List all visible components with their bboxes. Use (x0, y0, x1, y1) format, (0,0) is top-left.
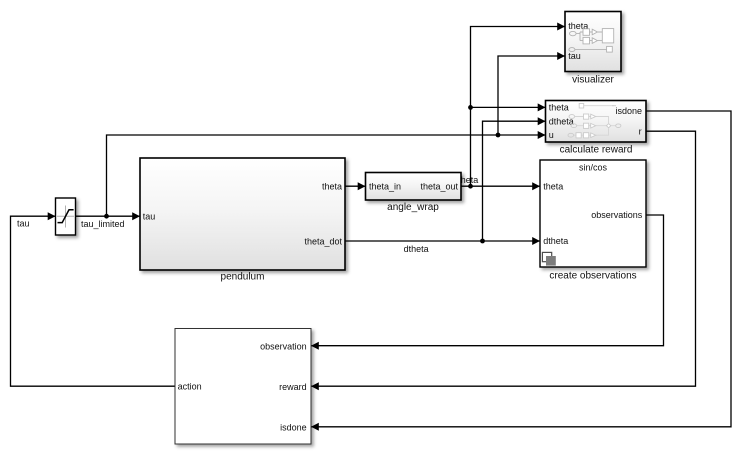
arrowhead into pendulum tau (132, 212, 140, 220)
angle_wrap block (366, 173, 462, 201)
calculate reward thumbnail row3 (571, 124, 577, 128)
junction on theta wire (468, 184, 473, 189)
svg-text:tau: tau (17, 219, 30, 229)
wire theta vertical branch to visualizer theta (471, 27, 566, 187)
visualizer thumbnail big square (602, 29, 613, 43)
svg-text:isdone: isdone (615, 106, 642, 116)
visualizer thumbnail gain 2 (592, 38, 597, 44)
calculate reward thumbnail row1 (579, 104, 584, 109)
svg-text:sin/cos: sin/cos (579, 163, 608, 173)
svg-text:theta: theta (549, 103, 569, 113)
create observations variant badge filled square (546, 256, 556, 266)
arrowhead into calculate reward theta (538, 103, 546, 111)
svg-text:pendulum: pendulum (221, 272, 265, 283)
wire observations: create observations to agent observation (311, 215, 664, 346)
svg-text:theta_out: theta_out (420, 181, 458, 191)
wire isdone: calculate reward isdone to agent isdone (311, 111, 731, 427)
svg-text:angle_wrap: angle_wrap (387, 202, 439, 213)
svg-text:dtheta: dtheta (543, 236, 568, 246)
arrowhead into angle_wrap theta_in (358, 182, 366, 190)
visualizer thumbnail gain 1 (592, 29, 597, 35)
svg-text:theta_dot: theta_dot (304, 236, 342, 246)
calculate reward thumbnail row4 (568, 133, 574, 137)
visualizer thumbnail row2 ellipse (569, 48, 575, 52)
arrowhead into agent observation (311, 342, 319, 350)
arrowhead into visualizer tau (557, 52, 565, 60)
create observations block (540, 160, 646, 267)
svg-text:reward: reward (279, 382, 307, 392)
visualizer thumbnail wires (576, 32, 602, 41)
svg-text:tau: tau (143, 212, 156, 222)
visualizer thumbnail row1 source ellipse (570, 31, 577, 35)
svg-text:tau_limited: tau_limited (81, 219, 125, 229)
visualizer thumbnail row2 wire (575, 49, 607, 51)
svg-text:observations: observations (591, 210, 643, 220)
visualizer thumbnail square 2 (583, 37, 590, 44)
wire action: agent action to saturation input (11, 216, 175, 386)
arrowhead into calculate reward dtheta (538, 117, 546, 125)
svg-text:dtheta: dtheta (404, 244, 429, 254)
svg-text:isdone: isdone (280, 422, 307, 432)
visualizer thumbnail row2 square (607, 46, 613, 52)
pendulum block (140, 158, 345, 270)
calculate reward thumbnail row2 (569, 115, 575, 119)
svg-text:theta: theta (322, 181, 342, 191)
arrowhead into calculate reward u (538, 131, 546, 139)
visualizer thumbnail square 1 (583, 29, 590, 36)
wire visualizer tau branch (498, 56, 565, 135)
svg-text:theta_in: theta_in (369, 181, 401, 191)
svg-text:calculate reward: calculate reward (560, 145, 633, 156)
svg-text:action: action (178, 382, 202, 392)
wire pendulum theta to angle_wrap theta_in (345, 185, 366, 187)
visualizer block (565, 12, 621, 72)
svg-text:r: r (639, 126, 642, 136)
junction on theta vertical (468, 105, 473, 110)
create observations variant badge outline square (542, 252, 551, 261)
arrowhead into agent reward (311, 382, 319, 390)
svg-text:create observations: create observations (549, 270, 636, 281)
wire theta branch to calculate reward theta (471, 106, 546, 108)
wire u branch: tau_limited up to calculate reward u (107, 135, 546, 216)
arrowhead into create observations theta (532, 182, 540, 190)
svg-text:u: u (549, 130, 554, 140)
junction on u wire (496, 133, 501, 138)
svg-text:observation: observation (260, 341, 307, 351)
arrowhead into visualizer theta (557, 23, 565, 31)
junction on dtheta wire (480, 239, 485, 244)
arrowhead into saturation (48, 212, 56, 220)
agent block (175, 329, 311, 445)
saturation block tau_limiter (56, 198, 76, 235)
wire r: calculate reward r to agent reward (311, 131, 696, 386)
wire tau_limited: saturation output to pendulum tau (76, 215, 141, 217)
arrowhead into create observations dtheta (532, 237, 540, 245)
arrowhead into agent isdone (311, 423, 319, 431)
svg-text:tau: tau (568, 51, 581, 61)
junction on tau_limited wire (104, 214, 109, 219)
svg-text:visualizer: visualizer (572, 74, 614, 85)
wire dtheta branch to calculate reward dtheta (483, 121, 546, 241)
wire pendulum theta_dot to create observations dtheta (345, 240, 540, 242)
wire angle_wrap theta_out to create observations theta (461, 185, 540, 187)
svg-text:theta: theta (543, 181, 563, 191)
calculate reward block (546, 101, 647, 143)
